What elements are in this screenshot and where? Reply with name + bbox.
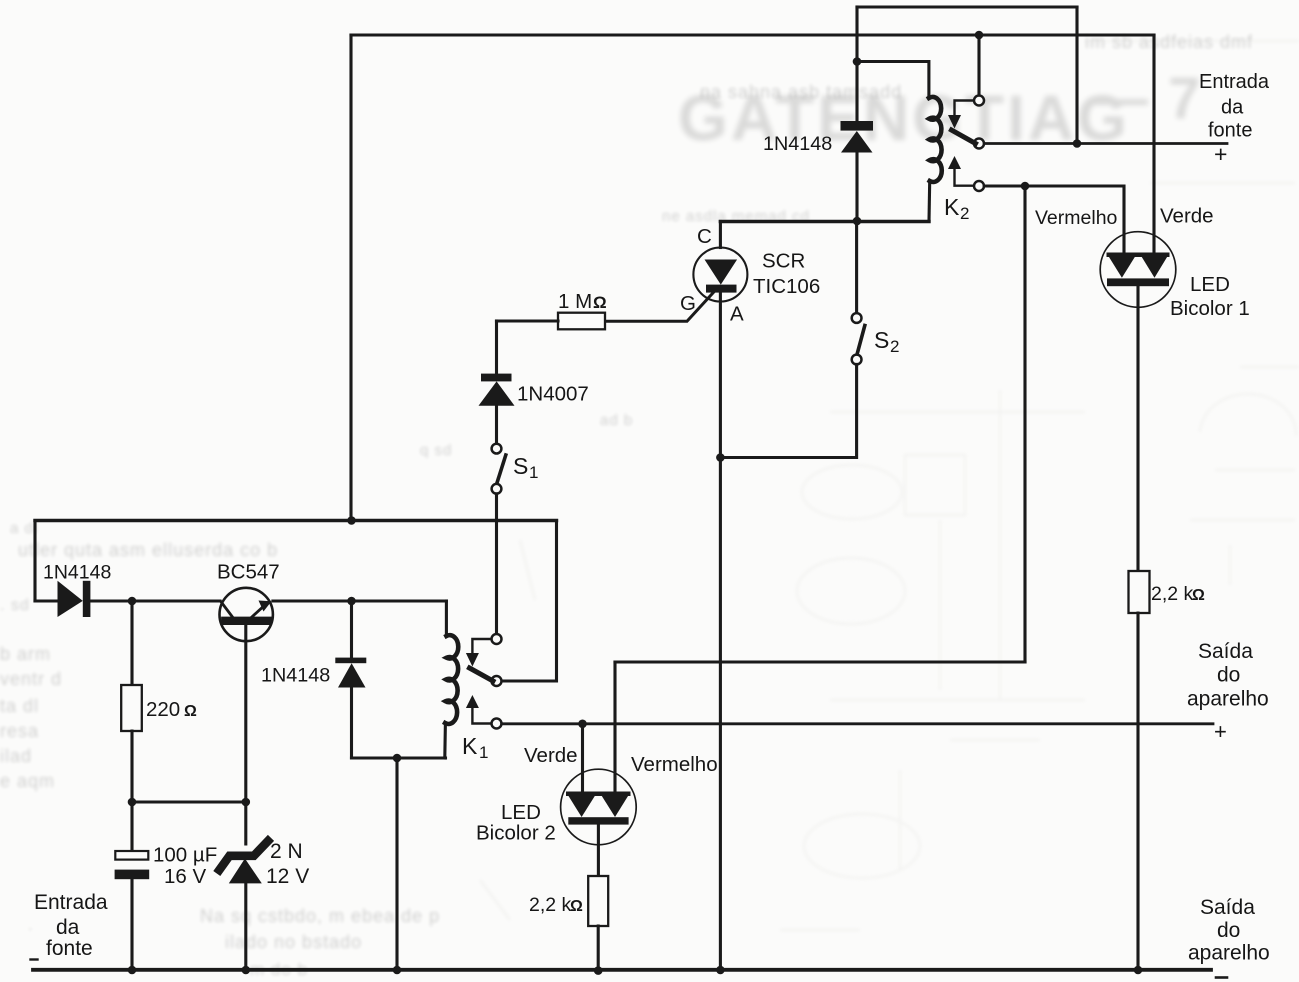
switch S1 bottom contact (492, 484, 502, 494)
wire K2 bottom contact to LED1 red lead (984, 186, 1124, 254)
transistor BC547 base bar (225, 617, 267, 625)
svg-text:do: do (1217, 919, 1240, 942)
svg-text:+: + (1214, 719, 1227, 744)
wire second rail across the page (351, 33, 1154, 36)
wire diode to transistor (90, 599, 220, 602)
svg-text:1 M: 1 M (558, 290, 592, 313)
relay K1 middle contact (492, 676, 502, 686)
node junction at bottom rail (594, 966, 603, 975)
wire zener to bottom rail (244, 883, 247, 970)
diode 1N4007 body (479, 374, 515, 406)
node junction on second rail above K2 contact (975, 31, 984, 40)
svg-text:. sd: . sd (0, 597, 30, 614)
diode 1N4148 (across K1 coil) leads (350, 601, 353, 758)
switch S1 blade (497, 455, 506, 484)
wire K1 coil top link (445, 601, 448, 636)
wire lower circuit top rail (35, 519, 557, 522)
minus tick right (1216, 976, 1227, 979)
LED Bicolor 2 cathode lead (597, 825, 600, 876)
node junction to long drop wire (1021, 182, 1030, 191)
svg-text:TIC106: TIC106 (753, 275, 820, 298)
svg-text:2: 2 (890, 337, 899, 356)
svg-text:K: K (462, 733, 478, 759)
wire 1 MΩ left lead (497, 319, 559, 322)
svg-text:q sd: q sd (420, 442, 452, 459)
wire S2 feed from K2 bottom wire (855, 222, 858, 314)
node junction diode tap on emitter wire (347, 597, 356, 606)
svg-text:2 N: 2 N (270, 840, 303, 863)
resistor 2,2 kΩ (LED2) (588, 876, 608, 926)
svg-text:1N4007: 1N4007 (517, 383, 589, 406)
relay K2 bottom contact (974, 181, 984, 191)
wire resistor to bottom rail (1136, 613, 1139, 970)
wire cross link to base node (132, 800, 246, 803)
SCR gate lead diagonal (605, 292, 714, 321)
switch S1 top contact (492, 444, 502, 454)
svg-text:Ω: Ω (1192, 587, 1205, 604)
resistor 2,2 kΩ (LED1) (1129, 571, 1150, 613)
resistor 1 MΩ (558, 313, 605, 330)
wire K2 coil top link (857, 62, 929, 99)
relay K2 lower contact hook (955, 169, 974, 186)
node junction on + wire (1073, 139, 1082, 148)
LED Bicolor 2 circle (561, 769, 637, 845)
svg-text:ta dl: ta dl (0, 696, 39, 716)
svg-text:2: 2 (960, 204, 969, 223)
zener diode bar (219, 841, 268, 870)
resistor 220 Ω (121, 685, 142, 731)
wire K2 top contact feed (977, 35, 980, 95)
diode 1N4148 input lead (35, 599, 58, 602)
svg-text:resa: resa (0, 721, 39, 741)
switch S2 top contact (852, 313, 862, 323)
svg-text:Ω: Ω (570, 898, 583, 915)
svg-text:Entrada: Entrada (1199, 71, 1270, 93)
svg-text:Ω: Ω (184, 703, 197, 720)
wire transistor emitter to relay K1 (273, 599, 447, 602)
svg-text:b arm: b arm (0, 644, 51, 664)
svg-text:1N4148: 1N4148 (763, 133, 832, 155)
node junction left lower node (128, 798, 137, 807)
svg-text:ventr d: ventr d (0, 669, 62, 689)
wire bend down to 1N4007 (495, 321, 498, 374)
LED Bicolor 1 cathode lead (1136, 286, 1139, 571)
node junction diode top (853, 57, 862, 66)
node junction capacitor at rail (128, 966, 137, 975)
relay K1 armature arrow down (466, 653, 479, 667)
wire K1 box bottom (352, 756, 446, 759)
relay K2 top contact (974, 96, 984, 106)
diode 1N4148 (across K2 coil) leads (855, 62, 858, 222)
wire K1 bottom contact output + long (502, 722, 1213, 725)
svg-text:LED: LED (1190, 273, 1230, 296)
svg-text:K: K (944, 194, 960, 220)
node junction base node (242, 798, 251, 807)
wire capacitor to bottom rail (130, 879, 133, 970)
svg-text:— 7: — 7 (1090, 66, 1202, 131)
diode 1N4148 (across K2 coil) body (841, 121, 874, 153)
relay K1 coil (445, 635, 458, 724)
svg-text:e aqm: e aqm (0, 771, 55, 791)
svg-text:+: + (1214, 141, 1227, 167)
svg-text:Na sq cstbdo, m ebea de p: Na sq cstbdo, m ebea de p (200, 906, 440, 926)
svg-text:2,2 k: 2,2 k (529, 894, 572, 916)
svg-text:da: da (1221, 97, 1244, 119)
op-amp SCR TIC106 circle (693, 248, 747, 302)
svg-text:C: C (697, 225, 712, 248)
wire S2 return to SCR anode (720, 364, 856, 457)
relay K2 armature pivot hook (955, 101, 974, 115)
wire drop from top rail to + line (1075, 7, 1078, 144)
svg-text:do: do (1217, 664, 1240, 687)
svg-text:ilad: ilad (0, 746, 32, 766)
svg-text:utler quta asm elluserda co b: utler quta asm elluserda co b (18, 540, 278, 560)
svg-text:fonte: fonte (1208, 120, 1252, 142)
zener diode 12V body (229, 859, 262, 884)
wire drop from top rail into diode/K2 branch (855, 7, 858, 62)
svg-text:Vermelho: Vermelho (631, 753, 718, 776)
node junction 220 ohm tap (128, 597, 137, 606)
svg-text:Saída: Saída (1198, 640, 1253, 663)
wire S1 to relay K1 top contact (495, 494, 498, 634)
diode 1N4148 (across K1 coil) body (335, 658, 366, 688)
wire long left vertical down to lower circuit (349, 35, 352, 521)
svg-text:BC547: BC547 (217, 561, 280, 584)
relay K2 armature arm (952, 130, 976, 144)
ghost figure bleed-through shapes (480, 41, 1299, 930)
svg-text:A: A (730, 303, 744, 326)
svg-text:S: S (874, 327, 889, 353)
svg-text:na sahna asb tamsadd: na sahna asb tamsadd (700, 82, 902, 102)
LED Bicolor 2 double diode body (566, 792, 631, 825)
svg-text:1N4148: 1N4148 (43, 562, 111, 584)
wire K2 coil bottom link (927, 181, 931, 221)
svg-text:Saída: Saída (1200, 896, 1255, 919)
wire node to capacitor (130, 802, 133, 851)
capacitor 100 µF plates (115, 851, 148, 860)
wire top rail from diode branch to right drop (857, 5, 1077, 8)
wire K1 coil bottom link (443, 723, 447, 758)
relay K2 coil (929, 97, 942, 182)
transistor BC547 base lead down to zener (244, 625, 247, 844)
node junction LED2 green tap (578, 720, 587, 729)
wire long drop from K2 bottom contact wire (1023, 186, 1026, 662)
svg-text:100 µF: 100 µF (153, 844, 217, 867)
diode 1N4148 (input, horizontal) body (58, 581, 91, 617)
svg-text:aparelho: aparelho (1187, 688, 1269, 711)
svg-text:ad b: ad b (600, 412, 633, 429)
transistor BC547 collector diagonal (221, 602, 233, 618)
node junction bottom rail right (1134, 966, 1143, 975)
minus tick left (31, 958, 38, 960)
wire K2 bottom horizontal to SCR cathode corner (720, 220, 929, 223)
svg-text:G: G (680, 292, 696, 315)
svg-text:16 V: 16 V (164, 865, 206, 888)
wire LED2 red lead drop (613, 662, 616, 792)
switch S2 bottom contact (852, 355, 862, 365)
wire + output of K2 middle contact to Entrada da fonte (984, 142, 1227, 145)
relay K1 armature pivot hook (472, 639, 490, 653)
node junction anode at bottom rail (716, 966, 725, 975)
transistor BC547 emitter diagonal with arrow (252, 605, 266, 618)
wire lower rail left bend down (33, 521, 36, 602)
node junction anode with S2 return (716, 453, 725, 462)
svg-text:Verde: Verde (1160, 205, 1214, 228)
svg-text:Entrada: Entrada (34, 891, 108, 914)
relay K1 top contact (492, 634, 502, 644)
transistor Q1 BC547 circle (220, 588, 273, 641)
SCR anode long vertical to bottom rail (719, 293, 722, 970)
SCR TIC106 triangle and bar (705, 260, 738, 293)
svg-text:1N4148: 1N4148 (261, 665, 330, 687)
svg-text:1: 1 (529, 463, 538, 482)
relay K2 middle contact (974, 139, 984, 149)
wire resistor to bottom rail (597, 926, 600, 970)
relay K1 armature arm (470, 668, 494, 681)
relay K2 lower arrow up (948, 156, 961, 169)
svg-text:Bicolor 1: Bicolor 1 (1170, 297, 1250, 320)
node junction K1 bottom to rail drop (393, 754, 402, 763)
svg-text:da: da (56, 916, 80, 939)
svg-text:Verde: Verde (524, 744, 578, 767)
wire bottom rail (33, 968, 1211, 972)
svg-text:Ω: Ω (593, 293, 607, 312)
wire 1N4007 to S1 (495, 406, 498, 444)
LED Bicolor 1 circle (1100, 232, 1176, 308)
wire LED2 green lead (581, 724, 584, 792)
svg-text:aparelho: aparelho (1188, 942, 1270, 965)
svg-text:SCR: SCR (762, 250, 805, 273)
svg-text:S: S (513, 453, 528, 479)
wire drop to LED1 green lead (1152, 35, 1155, 254)
switch S2 blade (857, 326, 865, 355)
SCR U1 cathode lead and top corner (719, 222, 722, 248)
wire down to 220 ohm (130, 601, 133, 685)
node junction at bottom rail (393, 966, 402, 975)
LED Bicolor 1 double diode body (1107, 253, 1170, 287)
svg-text:1: 1 (479, 743, 488, 762)
svg-text:.: . (28, 917, 33, 934)
node junction zener at rail (242, 966, 251, 975)
node junction diode bottom on K2 bottom wire (853, 217, 862, 226)
relay K1 lower contact hook (472, 708, 490, 724)
svg-text:Bicolor 2: Bicolor 2 (476, 822, 556, 845)
node junction long left vertical joins lower rail (347, 516, 356, 525)
svg-text:12 V: 12 V (266, 865, 309, 888)
wire 220 ohm to lower node (130, 731, 133, 802)
svg-text:220: 220 (146, 698, 180, 721)
relay K1 bottom contact (492, 719, 502, 729)
wire drop to bottom rail (395, 758, 398, 970)
svg-text:Vermelho: Vermelho (1035, 207, 1118, 229)
relay K1 lower arrow up (466, 695, 479, 708)
svg-text:fonte: fonte (46, 937, 93, 960)
wire horizontal to LED2 red lead (615, 660, 1025, 663)
relay K2 armature arrow down (948, 115, 961, 129)
svg-text:2,2 k: 2,2 k (1151, 583, 1194, 605)
wire lower rail right bend to K1 middle contact (502, 521, 557, 682)
